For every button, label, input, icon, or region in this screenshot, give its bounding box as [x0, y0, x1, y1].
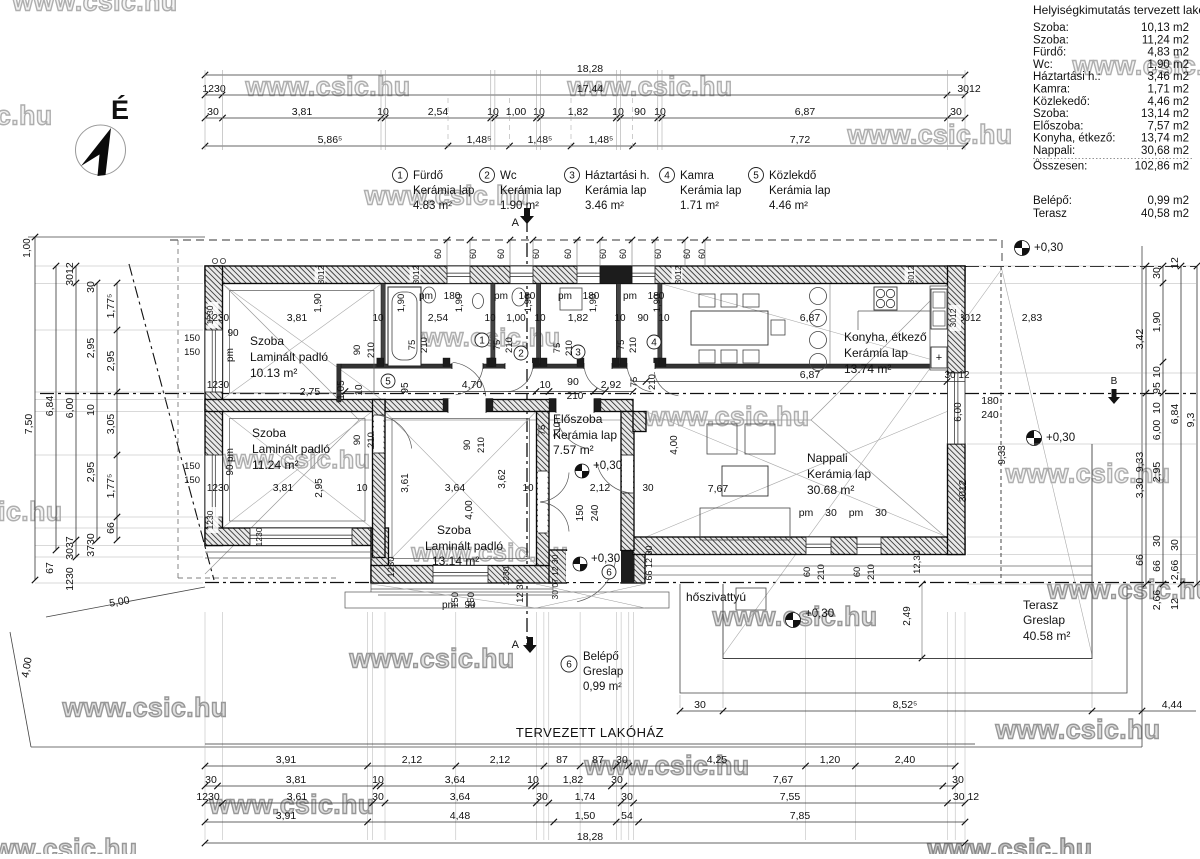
svg-text:1,77⁵: 1,77⁵ [105, 474, 117, 499]
top dim row window axes [205, 145, 965, 147]
svg-text:www.csic.hu: www.csic.hu [0, 497, 63, 527]
door eloszoba-nappali [622, 455, 633, 493]
svg-text:www.csic.hu: www.csic.hu [846, 120, 1012, 150]
svg-text:3012: 3012 [411, 265, 421, 284]
room diagonal szoba2 [223, 412, 373, 529]
svg-text:13.14 m²: 13.14 m² [432, 554, 479, 568]
svg-text:Szoba: Szoba [250, 334, 284, 348]
svg-text:10: 10 [484, 313, 496, 324]
svg-text:1230: 1230 [207, 380, 230, 391]
svg-text:30: 30 [616, 754, 628, 766]
svg-text:Kerámia lap: Kerámia lap [680, 185, 741, 197]
svg-text:3,91: 3,91 [276, 754, 297, 766]
svg-text:102,86 m2: 102,86 m2 [1135, 160, 1189, 172]
svg-text:30: 30 [621, 791, 633, 803]
svg-text:66: 66 [1134, 554, 1146, 566]
kitchen fridge [931, 347, 947, 368]
svg-text:60: 60 [682, 249, 692, 259]
svg-text:Fürdő: Fürdő [413, 170, 443, 182]
svg-text:30 12: 30 12 [953, 791, 979, 803]
elevation marker eloszoba [575, 464, 589, 478]
svg-text:+0,30: +0,30 [591, 553, 620, 565]
svg-text:A: A [512, 217, 520, 229]
svg-text:10: 10 [85, 404, 97, 416]
extension lines top dims [204, 70, 206, 150]
svg-text:3012: 3012 [958, 479, 969, 502]
window kamra north [632, 266, 655, 284]
svg-text:1,90: 1,90 [313, 293, 324, 313]
partition wc-haztartasi [537, 284, 541, 365]
svg-text:210: 210 [419, 337, 430, 353]
door furdo [452, 363, 483, 369]
svg-text:1,90: 1,90 [652, 294, 663, 313]
svg-text:www.csic.hu: www.csic.hu [244, 72, 410, 102]
kitchen chairs circles [810, 288, 827, 305]
svg-text:5: 5 [385, 377, 391, 388]
svg-text:30: 30 [205, 774, 217, 786]
plan circle 6 belepo [602, 565, 616, 579]
entrance paving cross lines [536, 584, 645, 608]
svg-text:1,00: 1,00 [506, 106, 527, 118]
svg-text:Kerámia lap: Kerámia lap [807, 467, 871, 481]
svg-text:3,64: 3,64 [445, 482, 466, 494]
svg-text:A: A [512, 639, 520, 651]
svg-text:1,90 m2: 1,90 m2 [1147, 59, 1189, 71]
svg-text:Nappali: Nappali [807, 451, 848, 465]
entrance step lines [370, 583, 372, 592]
svg-text:13,74 m2: 13,74 m2 [1141, 133, 1189, 145]
svg-text:pm: pm [225, 348, 236, 362]
right dim col B [1162, 266, 1164, 584]
bottom dim row 3 [205, 802, 965, 804]
terrace 2,49 dim line [921, 584, 923, 658]
bottom dim row 4 [205, 821, 965, 823]
svg-text:1,77⁵: 1,77⁵ [105, 294, 117, 319]
svg-text:1,74: 1,74 [575, 791, 596, 803]
svg-text:3,81: 3,81 [286, 774, 307, 786]
site line top left [28, 236, 205, 238]
window szoba1 west [205, 330, 223, 392]
svg-text:Belépő:: Belépő: [1033, 195, 1072, 207]
svg-text:10: 10 [612, 106, 624, 118]
svg-text:210: 210 [564, 340, 575, 356]
svg-text:Szoba: Szoba [252, 426, 286, 440]
svg-text:+: + [936, 352, 942, 364]
svg-text:6,87: 6,87 [795, 106, 816, 118]
elevation marker terrace top [1015, 241, 1030, 256]
svg-text:13,14 m2: 13,14 m2 [1141, 108, 1189, 120]
extension lines terrace dim [679, 695, 681, 708]
svg-text:1,82: 1,82 [563, 774, 584, 786]
wall partition szoba1-szoba2 [205, 400, 385, 412]
bottom dim row 2 [205, 785, 955, 787]
svg-text:Közlekedő:: Közlekedő: [1033, 96, 1090, 108]
top dim row 17,44 + 1230 + 3012 [205, 94, 965, 96]
svg-text:Wc:: Wc: [1033, 59, 1053, 71]
svg-text:90: 90 [227, 328, 239, 339]
svg-text:Belépő: Belépő [583, 651, 619, 663]
left dim col 7,50 [34, 237, 36, 580]
extension lines bottom dims [204, 612, 206, 840]
svg-text:30.68 m²: 30.68 m² [807, 483, 854, 497]
eaves dashed left [177, 240, 179, 578]
svg-text:150: 150 [450, 592, 461, 608]
svg-text:6: 6 [606, 568, 612, 579]
svg-text:7,50: 7,50 [23, 414, 35, 435]
terrace inner step lines [652, 565, 1092, 567]
wall nappali bottom [633, 537, 965, 555]
svg-text:Kerámia lap: Kerámia lap [413, 185, 474, 197]
svg-text:60: 60 [598, 249, 608, 259]
svg-text:Kerámia lap: Kerámia lap [500, 185, 561, 197]
roof ridge [359, 419, 811, 421]
svg-text:11.24 m²: 11.24 m² [252, 458, 298, 472]
svg-text:9,33: 9,33 [1134, 452, 1146, 473]
svg-text:2,66: 2,66 [1169, 560, 1181, 581]
rotated 1230 label left wall [208, 302, 219, 328]
nappali armchair 2 [745, 424, 775, 454]
svg-text:4,00: 4,00 [669, 435, 680, 455]
svg-text:2,92: 2,92 [601, 379, 622, 391]
svg-text:1,90: 1,90 [588, 294, 599, 313]
svg-text:Greslap: Greslap [583, 666, 623, 678]
svg-text:1.71 m²: 1.71 m² [680, 200, 719, 212]
svg-text:10: 10 [372, 774, 384, 786]
svg-text:+0,30: +0,30 [593, 460, 622, 472]
svg-text:2,95: 2,95 [314, 478, 325, 498]
svg-text:40.58 m²: 40.58 m² [1023, 629, 1070, 643]
svg-text:4,00: 4,00 [464, 500, 475, 520]
site line 5,00 [46, 587, 205, 617]
svg-text:Laminált padló: Laminált padló [250, 350, 328, 364]
partition furdo-wc [491, 284, 495, 365]
door eloszoba north [556, 399, 594, 414]
svg-text:1: 1 [479, 336, 485, 347]
svg-text:1,90: 1,90 [1151, 312, 1163, 333]
svg-text:3,81: 3,81 [292, 106, 313, 118]
wall exterior left [205, 266, 223, 546]
dining table [691, 311, 768, 345]
plan circle 5 kozlekedo [381, 374, 395, 388]
passage corridor-kitchen arc [654, 372, 678, 396]
svg-text:3,91: 3,91 [276, 810, 297, 822]
svg-text:60: 60 [433, 249, 443, 259]
eaves dashed bottom [178, 577, 340, 579]
terrace door kitchen east [948, 373, 966, 444]
svg-text:1230: 1230 [501, 566, 511, 585]
table dotted divider [1033, 157, 1192, 159]
svg-text:30: 30 [875, 507, 887, 519]
svg-text:2,40: 2,40 [895, 754, 916, 766]
legend belepo [561, 656, 577, 672]
svg-text:+0,30: +0,30 [1046, 432, 1075, 444]
svg-text:2,95: 2,95 [85, 338, 97, 359]
svg-text:3,64: 3,64 [450, 791, 471, 803]
svg-text:4,25: 4,25 [707, 754, 728, 766]
roof hip diagonal top-left [205, 266, 359, 420]
svg-text:75: 75 [616, 340, 627, 351]
right dim col D partial [1196, 266, 1198, 584]
svg-text:150: 150 [184, 475, 200, 486]
svg-text:1,05: 1,05 [336, 380, 347, 400]
svg-text:2,66: 2,66 [1151, 590, 1163, 611]
door szoba1 [448, 399, 486, 414]
svg-text:pm: pm [225, 448, 236, 462]
svg-text:3,61: 3,61 [287, 791, 308, 803]
svg-text:90: 90 [462, 440, 473, 451]
svg-text:210: 210 [366, 432, 377, 448]
svg-text:30: 30 [694, 699, 706, 711]
plan circle 1 furdo [475, 333, 489, 347]
svg-text:87: 87 [556, 754, 568, 766]
svg-text:Helyiségkimutatás tervezett la: Helyiségkimutatás tervezett lakó [1033, 3, 1200, 17]
svg-text:Laminált padló: Laminált padló [425, 539, 503, 553]
svg-text:1230: 1230 [254, 527, 264, 546]
svg-text:4: 4 [651, 338, 657, 349]
svg-text:pm: pm [558, 291, 572, 302]
svg-text:hőszivattyú: hőszivattyú [686, 590, 746, 604]
wall szoba3 bottom [371, 566, 553, 584]
legend item 4 Kamra [660, 168, 675, 183]
svg-text:90: 90 [352, 435, 363, 446]
svg-text:7,67: 7,67 [708, 483, 729, 495]
left dim col 6,84 [55, 266, 57, 550]
svg-text:3012: 3012 [957, 83, 981, 95]
svg-text:10,13 m2: 10,13 m2 [1141, 22, 1189, 34]
room diagonal konyha [662, 284, 947, 364]
svg-text:3,30: 3,30 [1134, 478, 1146, 499]
plinth lines below szoba3 wall [371, 588, 553, 590]
bathtub furdo [388, 287, 421, 366]
svg-text:30: 30 [372, 791, 384, 803]
svg-text:60: 60 [653, 249, 663, 259]
svg-text:12 30: 12 30 [515, 579, 526, 603]
svg-text:1,48⁵: 1,48⁵ [467, 134, 492, 146]
svg-text:www.csic.hu: www.csic.hu [348, 644, 514, 674]
svg-text:10: 10 [372, 313, 384, 324]
terrace dim 8,52 [680, 710, 1196, 712]
svg-text:10: 10 [533, 106, 545, 118]
svg-text:30 07 12 30: 30 07 12 30 [550, 554, 560, 599]
svg-text:3012: 3012 [316, 265, 326, 284]
window szoba3 south [433, 566, 488, 584]
svg-text:10: 10 [658, 313, 670, 324]
drain circles top-left [212, 258, 217, 263]
svg-text:40,58 m2: 40,58 m2 [1141, 208, 1189, 220]
svg-text:1,90: 1,90 [523, 294, 534, 313]
inner rect szoba1 [230, 291, 375, 394]
svg-text:87: 87 [592, 754, 604, 766]
svg-text:4.46 m²: 4.46 m² [769, 200, 808, 212]
svg-text:60: 60 [618, 249, 628, 259]
partition furdo left [381, 284, 385, 365]
svg-text:75: 75 [537, 425, 548, 436]
svg-text:www.csic.hu: www.csic.hu [0, 834, 138, 855]
svg-text:150: 150 [466, 592, 477, 608]
svg-text:Közlekdő: Közlekdő [769, 170, 816, 182]
svg-text:Laminált padló: Laminált padló [252, 442, 330, 456]
bottom dim row 1 [205, 765, 955, 767]
legend item 2 Wc [480, 168, 495, 183]
svg-text:Szoba:: Szoba: [1033, 108, 1069, 120]
wall exterior bottom-left [205, 528, 378, 546]
svg-text:10: 10 [527, 774, 539, 786]
inner rect szoba3 [392, 419, 530, 559]
svg-text:3037: 3037 [64, 536, 76, 560]
elevation marker terrace bottom [786, 613, 801, 628]
partition small rooms south wall [341, 364, 948, 368]
svg-text:4: 4 [664, 171, 670, 182]
roof hip diagonal bottom-left [205, 420, 359, 574]
svg-text:1,48⁵: 1,48⁵ [589, 134, 614, 146]
svg-text:Nappali:: Nappali: [1033, 145, 1075, 157]
svg-text:30: 30 [1151, 535, 1163, 547]
svg-text:1,71 m2: 1,71 m2 [1147, 84, 1189, 96]
site boundary bottom [31, 746, 1142, 748]
svg-text:10: 10 [354, 384, 365, 396]
svg-text:É: É [111, 94, 129, 125]
svg-text:www.csic.hu: www.csic.hu [926, 834, 1092, 855]
svg-text:54: 54 [621, 810, 633, 822]
svg-text:12: 12 [1169, 598, 1181, 610]
svg-text:3730: 3730 [85, 533, 97, 557]
window haztartasi north [577, 266, 600, 284]
svg-text:2,95: 2,95 [105, 351, 117, 372]
svg-text:66: 66 [105, 522, 117, 534]
svg-text:Wc: Wc [500, 170, 517, 182]
svg-text:150: 150 [184, 461, 200, 472]
kitchen counter east [930, 286, 948, 370]
svg-text:210: 210 [816, 564, 827, 580]
svg-text:10: 10 [356, 483, 368, 494]
window nappali south 1 [806, 537, 831, 555]
room diagonal szoba1 [223, 284, 382, 399]
wall szoba2 right [373, 400, 386, 558]
partition kamra-konyha [658, 284, 662, 365]
svg-text:2: 2 [518, 349, 524, 360]
left dim col 3,05 [96, 283, 98, 540]
svg-text:Konyha, étkező: Konyha, étkező [844, 330, 927, 344]
svg-text:Terasz: Terasz [1033, 208, 1067, 220]
svg-text:pm: pm [494, 291, 508, 302]
site boundary left slant [10, 632, 31, 747]
wall black pier haztartasi-kamra [600, 266, 632, 284]
terrace outer rect [680, 584, 1127, 693]
axis dash-dot right of house [965, 266, 1196, 268]
svg-text:B: B [1111, 376, 1118, 387]
wall exterior right lower [948, 444, 966, 555]
extension lines left dims [35, 265, 203, 267]
svg-text:10: 10 [1151, 366, 1163, 378]
svg-text:Terasz: Terasz [1023, 598, 1058, 612]
svg-text:3012: 3012 [948, 308, 958, 327]
svg-text:95: 95 [1151, 382, 1163, 394]
plan circle 2 wc [514, 346, 528, 360]
svg-text:Greslap: Greslap [1023, 613, 1065, 627]
svg-text:6,00: 6,00 [64, 398, 76, 419]
svg-text:Összesen:: Összesen: [1033, 160, 1087, 172]
door entrance [566, 551, 621, 582]
plinth lines below szoba2 wall [205, 551, 378, 553]
svg-text:4,83 m2: 4,83 m2 [1147, 47, 1189, 59]
svg-text:60: 60 [496, 249, 506, 259]
elevation marker belepo [573, 557, 587, 571]
svg-text:1230: 1230 [207, 483, 230, 494]
right dim col A [1145, 266, 1147, 584]
terrace slab rect [723, 444, 1092, 659]
svg-text:60: 60 [852, 567, 863, 578]
svg-text:2,75: 2,75 [300, 386, 321, 398]
svg-text:pm: pm [799, 507, 814, 519]
kitchen zone divider [829, 284, 831, 364]
svg-text:210: 210 [504, 337, 515, 353]
svg-text:pm: pm [623, 291, 637, 302]
section line B-B horizontal [40, 393, 1196, 395]
svg-text:60: 60 [531, 249, 541, 259]
svg-text:10: 10 [522, 483, 534, 494]
svg-text:pm: pm [849, 507, 864, 519]
svg-text:30 12: 30 12 [944, 370, 969, 381]
svg-text:Szoba:: Szoba: [1033, 34, 1069, 46]
svg-text:Háztartási h.: Háztartási h. [585, 170, 650, 182]
right dim col C [1180, 266, 1182, 584]
svg-text:1230: 1230 [196, 791, 220, 803]
svg-text:3,46 m2: 3,46 m2 [1147, 71, 1189, 83]
svg-text:4,46 m2: 4,46 m2 [1147, 96, 1189, 108]
svg-text:3012: 3012 [64, 262, 76, 286]
kitchen stove [874, 287, 897, 310]
svg-text:3,81: 3,81 [273, 482, 294, 494]
svg-text:4.83 m²: 4.83 m² [413, 200, 452, 212]
svg-text:12,30: 12,30 [912, 550, 923, 574]
svg-text:3: 3 [575, 348, 581, 359]
partition feet blocks [377, 358, 384, 367]
svg-text:1,90: 1,90 [396, 294, 407, 313]
elevation marker nappali east [1027, 431, 1042, 446]
svg-text:3012: 3012 [906, 265, 916, 284]
extension lines right dims [967, 265, 1196, 267]
svg-text:+0,30: +0,30 [1034, 242, 1063, 254]
axis dash line above house [170, 239, 1002, 241]
svg-text:7.57 m²: 7.57 m² [553, 443, 594, 457]
stub wall szoba1 east [337, 364, 341, 402]
top dim row segments [205, 117, 965, 119]
svg-text:6,00: 6,00 [953, 402, 964, 422]
svg-text:90: 90 [637, 313, 649, 324]
svg-text:Szoba:: Szoba: [1033, 22, 1069, 34]
svg-text:1230: 1230 [64, 567, 76, 591]
svg-text:8,52⁵: 8,52⁵ [893, 699, 918, 711]
svg-text:3,05: 3,05 [105, 414, 117, 435]
terrace diagonal [1001, 266, 1092, 655]
washing machine haztartasi [560, 288, 582, 310]
axis dash-dot entrance level [205, 582, 1196, 584]
svg-text:75: 75 [629, 377, 640, 388]
svg-text:30: 30 [536, 791, 548, 803]
svg-text:10: 10 [377, 106, 389, 118]
door szoba3 double [538, 471, 548, 533]
svg-text:240: 240 [981, 409, 999, 421]
wall nappali west stub [633, 412, 646, 432]
eave tick lines above wall [446, 240, 448, 265]
svg-text:Kerámia lap: Kerámia lap [769, 185, 830, 197]
svg-text:7,57 m2: 7,57 m2 [1147, 120, 1189, 132]
svg-text:30: 30 [1169, 539, 1181, 551]
svg-text:6,87: 6,87 [800, 369, 821, 381]
svg-text:2: 2 [484, 171, 490, 182]
svg-text:10: 10 [534, 313, 546, 324]
svg-text:90: 90 [634, 106, 646, 118]
